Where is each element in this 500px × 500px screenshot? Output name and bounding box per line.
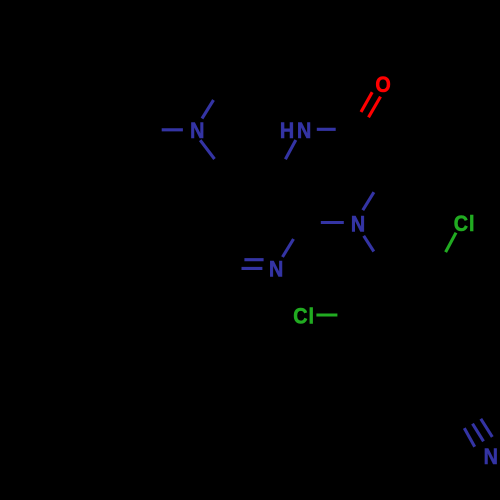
bond N4-C3 (up-right, blue half)	[363, 192, 374, 210]
atom N (nitrile N)	[484, 445, 498, 469]
bond Cl-aryl (right, green half)	[316, 313, 337, 316]
svg-text:C: C	[293, 305, 307, 329]
bond N5=C6 main line (blue half)	[242, 267, 263, 270]
svg-text:l: l	[469, 212, 474, 236]
svg-text:N: N	[351, 212, 365, 236]
svg-text:O: O	[375, 73, 390, 97]
bond N-C8 (ring carbon, blue half)	[200, 140, 214, 159]
bond N4-C4a (left, blue half)	[321, 221, 344, 224]
svg-text:N: N	[484, 445, 498, 469]
svg-text:H: H	[280, 119, 294, 143]
atom Cl (right chlorine)	[454, 212, 468, 236]
bond C2=O main line (red half)	[369, 97, 381, 118]
bond N5=C6 inner line (blue half)	[244, 258, 263, 261]
bond C2=O inner line (red half)	[361, 92, 372, 112]
atom H of amide HN	[280, 119, 294, 143]
bond C#N right line (blue half)	[481, 419, 493, 437]
atom N5 (pyridine N)	[269, 258, 283, 282]
bond N5-C4a (up-right, blue half)	[283, 239, 294, 257]
atom N4 (ring amide N)	[351, 212, 365, 236]
atom N (dimethylamino N)	[190, 119, 204, 143]
svg-text:N: N	[190, 119, 204, 143]
bond N-CH3 (left methyl, blue half)	[162, 128, 183, 131]
bond C#N main line (blue half)	[473, 424, 484, 442]
svg-text:N: N	[269, 258, 283, 282]
bond N-CH3 (upper-right methyl, blue half)	[202, 100, 214, 119]
bond C#N left line (blue half)	[464, 428, 474, 447]
svg-text:l: l	[309, 305, 314, 329]
atom Cl (left chlorine)	[293, 305, 307, 329]
atom N of amide HN	[297, 119, 311, 143]
bond N4-aryl ipso (down-right, blue half)	[364, 236, 374, 252]
bond HN-C8a (down-left, blue half)	[285, 140, 295, 159]
svg-text:N: N	[297, 119, 311, 143]
atom O (carbonyl oxygen)	[375, 73, 390, 97]
bond Cl-aryl (down-left, green half)	[446, 233, 456, 252]
bond HN-C2 carbonyl (right, blue half)	[317, 128, 336, 131]
